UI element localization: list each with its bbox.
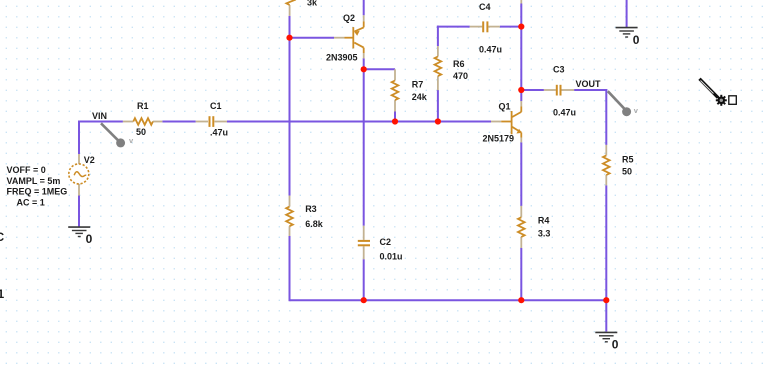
svg-text:50: 50 — [622, 167, 632, 177]
svg-text:0: 0 — [86, 232, 93, 246]
svg-text:VOUT: VOUT — [576, 79, 602, 89]
svg-text:2N5179: 2N5179 — [483, 134, 515, 144]
svg-text:C4: C4 — [479, 2, 491, 12]
svg-text:1: 1 — [0, 287, 5, 301]
svg-text:50: 50 — [136, 127, 146, 137]
svg-text:VAMPL = 5m: VAMPL = 5m — [7, 176, 61, 186]
svg-text:C: C — [0, 230, 5, 244]
svg-text:470: 470 — [453, 71, 468, 81]
svg-text:.47u: .47u — [210, 128, 228, 138]
svg-text:C3: C3 — [553, 65, 565, 75]
svg-text:VOFF = 0: VOFF = 0 — [7, 165, 46, 175]
svg-text:0.47u: 0.47u — [553, 108, 576, 118]
svg-text:V2: V2 — [84, 155, 95, 165]
svg-text:R4: R4 — [538, 216, 550, 226]
svg-text:C2: C2 — [380, 237, 392, 247]
svg-text:C1: C1 — [210, 101, 222, 111]
svg-text:3.3: 3.3 — [538, 229, 551, 239]
svg-text:FREQ = 1MEG: FREQ = 1MEG — [7, 187, 68, 197]
svg-text:3k: 3k — [307, 0, 318, 8]
svg-text:2N3905: 2N3905 — [326, 53, 358, 63]
svg-text:Q2: Q2 — [343, 13, 355, 23]
svg-text:R6: R6 — [453, 59, 465, 69]
svg-text:0.01u: 0.01u — [380, 252, 403, 262]
svg-text:6.8k: 6.8k — [305, 219, 324, 229]
svg-text:24k: 24k — [412, 92, 428, 102]
svg-text:R5: R5 — [622, 155, 634, 165]
svg-text:VIN: VIN — [92, 111, 107, 121]
svg-text:AC = 1: AC = 1 — [17, 197, 45, 207]
svg-text:0: 0 — [612, 338, 619, 352]
svg-text:0.47u: 0.47u — [479, 45, 502, 55]
svg-text:R3: R3 — [305, 204, 317, 214]
svg-text:R1: R1 — [137, 101, 149, 111]
svg-text:R7: R7 — [412, 80, 424, 90]
svg-text:Q1: Q1 — [499, 101, 511, 111]
svg-text:0: 0 — [633, 33, 640, 47]
